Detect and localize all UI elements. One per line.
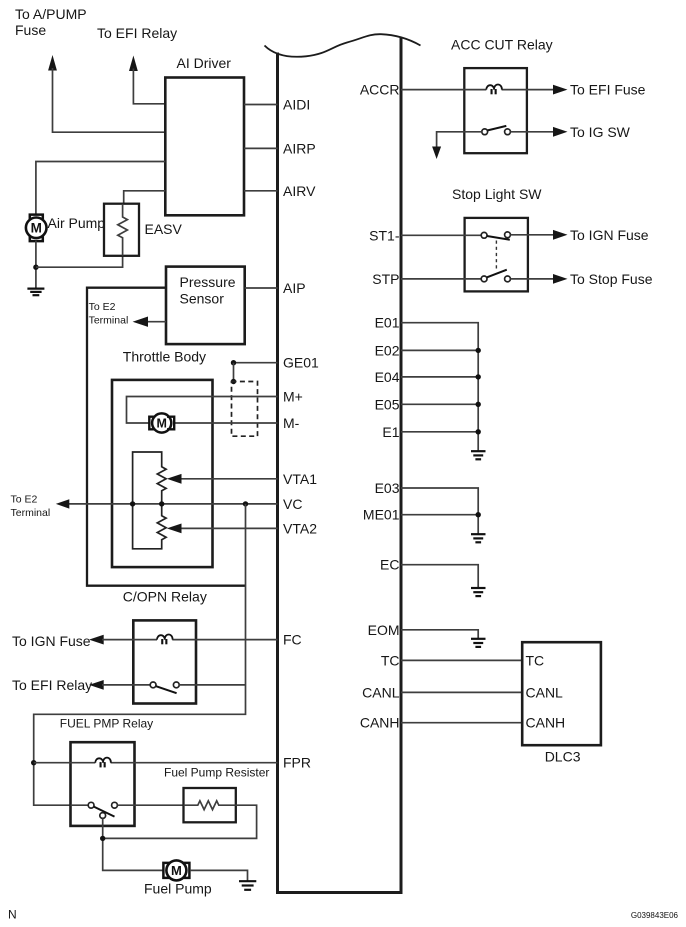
wire GE01 down to shield top xyxy=(233,363,235,382)
wire to switch xyxy=(102,684,150,686)
svg-text:AI Driver: AI Driver xyxy=(177,55,232,71)
coil fuel pump relay coil xyxy=(95,758,111,768)
node FPR junction xyxy=(31,760,36,765)
wire switch left to down arrow xyxy=(437,132,482,149)
svg-text:CANL: CANL xyxy=(526,684,564,700)
svg-text:C/OPN Relay: C/OPN Relay xyxy=(123,589,207,605)
svg-text:EASV: EASV xyxy=(145,221,183,237)
svg-text:Fuel Pump Resister: Fuel Pump Resister xyxy=(164,766,269,780)
ECU left edge xyxy=(276,53,279,894)
svg-text:Terminal: Terminal xyxy=(11,507,51,519)
wire EFI relay to AI Driver xyxy=(133,69,165,104)
svg-text:Air Pump: Air Pump xyxy=(48,215,106,231)
wire EASV bottom to junction xyxy=(36,256,123,267)
svg-text:Fuse: Fuse xyxy=(15,22,46,38)
svg-text:FUEL PMP Relay: FUEL PMP Relay xyxy=(60,717,153,731)
wire AIDI stub xyxy=(244,104,278,106)
shield dashed box xyxy=(232,382,258,437)
wire E04 xyxy=(401,376,478,378)
switch fuel pump relay contacts xyxy=(88,802,117,818)
sensor Pressure Sensor box xyxy=(166,267,245,345)
node fuel pump feed junction xyxy=(100,836,105,841)
wire AI Driver to EASV xyxy=(124,191,166,204)
wire switch to fuel pump resistor xyxy=(117,804,183,806)
wire FPR line xyxy=(34,762,96,764)
wire ST1- line xyxy=(401,234,481,236)
node GE01 junction xyxy=(231,360,236,365)
wire STP to stop fuse xyxy=(510,278,554,280)
relay C/OPN Relay box xyxy=(133,620,196,703)
ground E03/ME01 xyxy=(471,534,486,542)
wire ST1- to IGN fuse xyxy=(510,234,554,236)
ground below fuel pump xyxy=(239,881,256,890)
svg-text:M: M xyxy=(31,221,42,236)
switch C/OPN relay contacts xyxy=(150,682,179,693)
coil C/OPN relay coil xyxy=(157,634,173,644)
svg-text:E05: E05 xyxy=(375,396,400,412)
wire fuel pump to ground xyxy=(190,870,248,881)
svg-text:AIP: AIP xyxy=(283,280,306,296)
svg-text:G039843E06: G039843E06 xyxy=(631,911,679,920)
svg-text:To Stop Fuse: To Stop Fuse xyxy=(570,271,653,287)
svg-text:M-: M- xyxy=(283,415,300,431)
wire E01 xyxy=(401,323,478,451)
wire M+ xyxy=(127,397,278,424)
wire E03 xyxy=(401,488,478,534)
arrow To IGN Fuse xyxy=(89,635,104,645)
relay FUEL PMP Relay box xyxy=(71,742,135,826)
wire AIRV stub xyxy=(244,190,278,192)
svg-text:E02: E02 xyxy=(375,342,400,358)
svg-text:To E2: To E2 xyxy=(11,494,38,506)
svg-text:M: M xyxy=(156,417,166,431)
svg-text:To IGN Fuse: To IGN Fuse xyxy=(570,227,649,243)
arrow To EFI Relay xyxy=(89,680,104,690)
ground EOM xyxy=(471,639,486,647)
ground E01-E1 group xyxy=(471,451,486,459)
svg-text:N: N xyxy=(8,908,17,922)
wire E1 xyxy=(401,431,478,433)
switch Stop Light SW box xyxy=(465,218,528,292)
svg-text:AIRV: AIRV xyxy=(283,183,316,199)
arrow To IG SW xyxy=(553,127,568,137)
svg-text:E03: E03 xyxy=(375,480,400,496)
svg-text:EOM: EOM xyxy=(368,622,400,638)
svg-text:VTA2: VTA2 xyxy=(283,520,317,536)
wire VTA2 with wiper arrow xyxy=(180,527,278,529)
wire TC xyxy=(401,659,522,661)
svg-text:Stop Light SW: Stop Light SW xyxy=(452,186,542,202)
potentiometer TPS body with two resistive tracks xyxy=(133,452,166,549)
svg-text:To A/PUMP: To A/PUMP xyxy=(15,6,87,22)
svg-text:Terminal: Terminal xyxy=(89,315,129,327)
arrow To Stop Fuse xyxy=(553,274,568,284)
svg-text:VTA1: VTA1 xyxy=(283,471,317,487)
svg-text:DLC3: DLC3 xyxy=(545,749,581,765)
svg-text:To IGN Fuse: To IGN Fuse xyxy=(12,633,91,649)
svg-text:TC: TC xyxy=(381,652,400,668)
svg-text:GE01: GE01 xyxy=(283,355,319,371)
enclosure throttle body housing (open box) xyxy=(87,288,246,586)
wire FC line xyxy=(102,639,157,641)
arrow To EFI Fuse xyxy=(553,85,568,95)
wire AIP stub xyxy=(245,287,278,289)
svg-text:CANH: CANH xyxy=(360,715,400,731)
svg-text:To E2: To E2 xyxy=(89,301,116,313)
wire VTA1 with wiper arrow xyxy=(180,478,278,480)
svg-text:FPR: FPR xyxy=(283,755,311,771)
svg-text:Sensor: Sensor xyxy=(180,291,225,307)
svg-text:STP: STP xyxy=(372,271,399,287)
dashed gang link xyxy=(495,241,497,271)
node VC branch xyxy=(243,501,248,506)
wire switch right to IG SW xyxy=(510,131,554,133)
svg-text:Pressure: Pressure xyxy=(180,274,236,290)
wire GE01 to shield xyxy=(234,362,278,364)
valve EASV box xyxy=(104,204,139,256)
node shield top junction xyxy=(231,379,236,384)
svg-text:ME01: ME01 xyxy=(363,507,400,523)
wire ME01 xyxy=(401,514,478,516)
wire AI Driver to air pump xyxy=(36,162,165,216)
ECU bottom edge xyxy=(276,891,403,894)
wire AIRP stub xyxy=(244,147,278,149)
wire STP line xyxy=(401,278,481,280)
svg-text:To EFI Fuse: To EFI Fuse xyxy=(570,82,646,98)
wire A/PUMP fuse to AI Driver xyxy=(53,68,166,132)
arrow To IGN Fuse (right) xyxy=(553,230,568,240)
arrow up to EFI Relay xyxy=(129,56,138,72)
motor Fuel Pump xyxy=(163,860,189,880)
svg-text:TC: TC xyxy=(526,652,545,668)
switch ST1- contacts xyxy=(481,232,510,240)
svg-text:E1: E1 xyxy=(382,424,399,440)
svg-text:EC: EC xyxy=(380,557,399,573)
wire CANH xyxy=(401,722,522,724)
ECU torn-top curve xyxy=(265,34,421,57)
wire VC branch down to C/OPN switch and fuel pump relay xyxy=(34,504,246,805)
op-amp AI Driver box xyxy=(165,78,244,216)
wire E02 xyxy=(401,349,478,351)
wire resistor out loop xyxy=(103,805,257,838)
svg-text:To IG SW: To IG SW xyxy=(570,124,631,140)
svg-text:E01: E01 xyxy=(375,315,400,331)
relay ACC CUT Relay box xyxy=(464,68,527,153)
svg-text:CANH: CANH xyxy=(526,715,566,731)
connector DLC3 box xyxy=(522,642,601,745)
enclosure throttle motor box xyxy=(112,380,213,567)
switch ACC CUT relay contacts xyxy=(482,126,511,135)
wire pressure sensor to E2 with arrow xyxy=(146,321,166,323)
ground EC xyxy=(471,588,486,596)
node E02 xyxy=(476,348,481,353)
node E04 xyxy=(476,374,481,379)
arrow up to A/PUMP fuse xyxy=(48,55,57,71)
wire M- xyxy=(174,422,278,424)
wire CANL xyxy=(401,691,522,693)
svg-text:ACCR: ACCR xyxy=(360,82,400,98)
svg-text:AIRP: AIRP xyxy=(283,140,316,156)
node air pump / EASV junction xyxy=(33,265,38,270)
svg-text:Throttle Body: Throttle Body xyxy=(123,349,206,365)
node E1 xyxy=(476,429,481,434)
svg-text:To EFI Relay: To EFI Relay xyxy=(97,25,177,41)
motor Air Pump xyxy=(26,215,47,242)
svg-text:VC: VC xyxy=(283,496,302,512)
wire EOM xyxy=(401,630,478,639)
resistor Fuel Pump Resister box xyxy=(184,788,236,822)
svg-text:ST1-: ST1- xyxy=(369,227,400,243)
arrow down (ACC CUT to ground side) xyxy=(432,147,441,160)
switch STP contacts xyxy=(481,270,510,282)
svg-text:AIDI: AIDI xyxy=(283,97,310,113)
node VC at track left xyxy=(130,501,135,506)
wire VC to E2 terminal xyxy=(68,503,278,505)
resistor zigzag xyxy=(184,801,236,810)
wire relay feed to switch xyxy=(71,804,89,806)
svg-text:E04: E04 xyxy=(375,369,400,385)
svg-text:M: M xyxy=(171,863,182,878)
wire air pump to ground xyxy=(35,241,37,289)
svg-text:Fuel Pump: Fuel Pump xyxy=(144,880,212,896)
wire EC xyxy=(401,565,478,588)
wire E05 xyxy=(401,403,478,405)
node E05 xyxy=(476,402,481,407)
ECU right edge xyxy=(400,38,403,894)
resistor inside EASV xyxy=(118,204,128,256)
coil ACC CUT relay coil xyxy=(486,84,502,94)
node ME01 xyxy=(476,512,481,517)
svg-text:M+: M+ xyxy=(283,389,303,405)
wire pivot down to fuel pump xyxy=(103,818,164,870)
arrow To E2 (VC) xyxy=(56,499,70,508)
svg-text:FC: FC xyxy=(283,632,302,648)
wire switch to VC branch xyxy=(179,684,245,686)
ground below air pump xyxy=(27,289,44,296)
node VC at track center xyxy=(159,501,164,506)
wire ACCR line xyxy=(401,89,486,91)
motor throttle control motor xyxy=(149,413,174,432)
svg-text:CANL: CANL xyxy=(362,684,400,700)
svg-text:To EFI Relay: To EFI Relay xyxy=(12,677,92,693)
svg-text:ACC CUT Relay: ACC CUT Relay xyxy=(451,37,553,53)
